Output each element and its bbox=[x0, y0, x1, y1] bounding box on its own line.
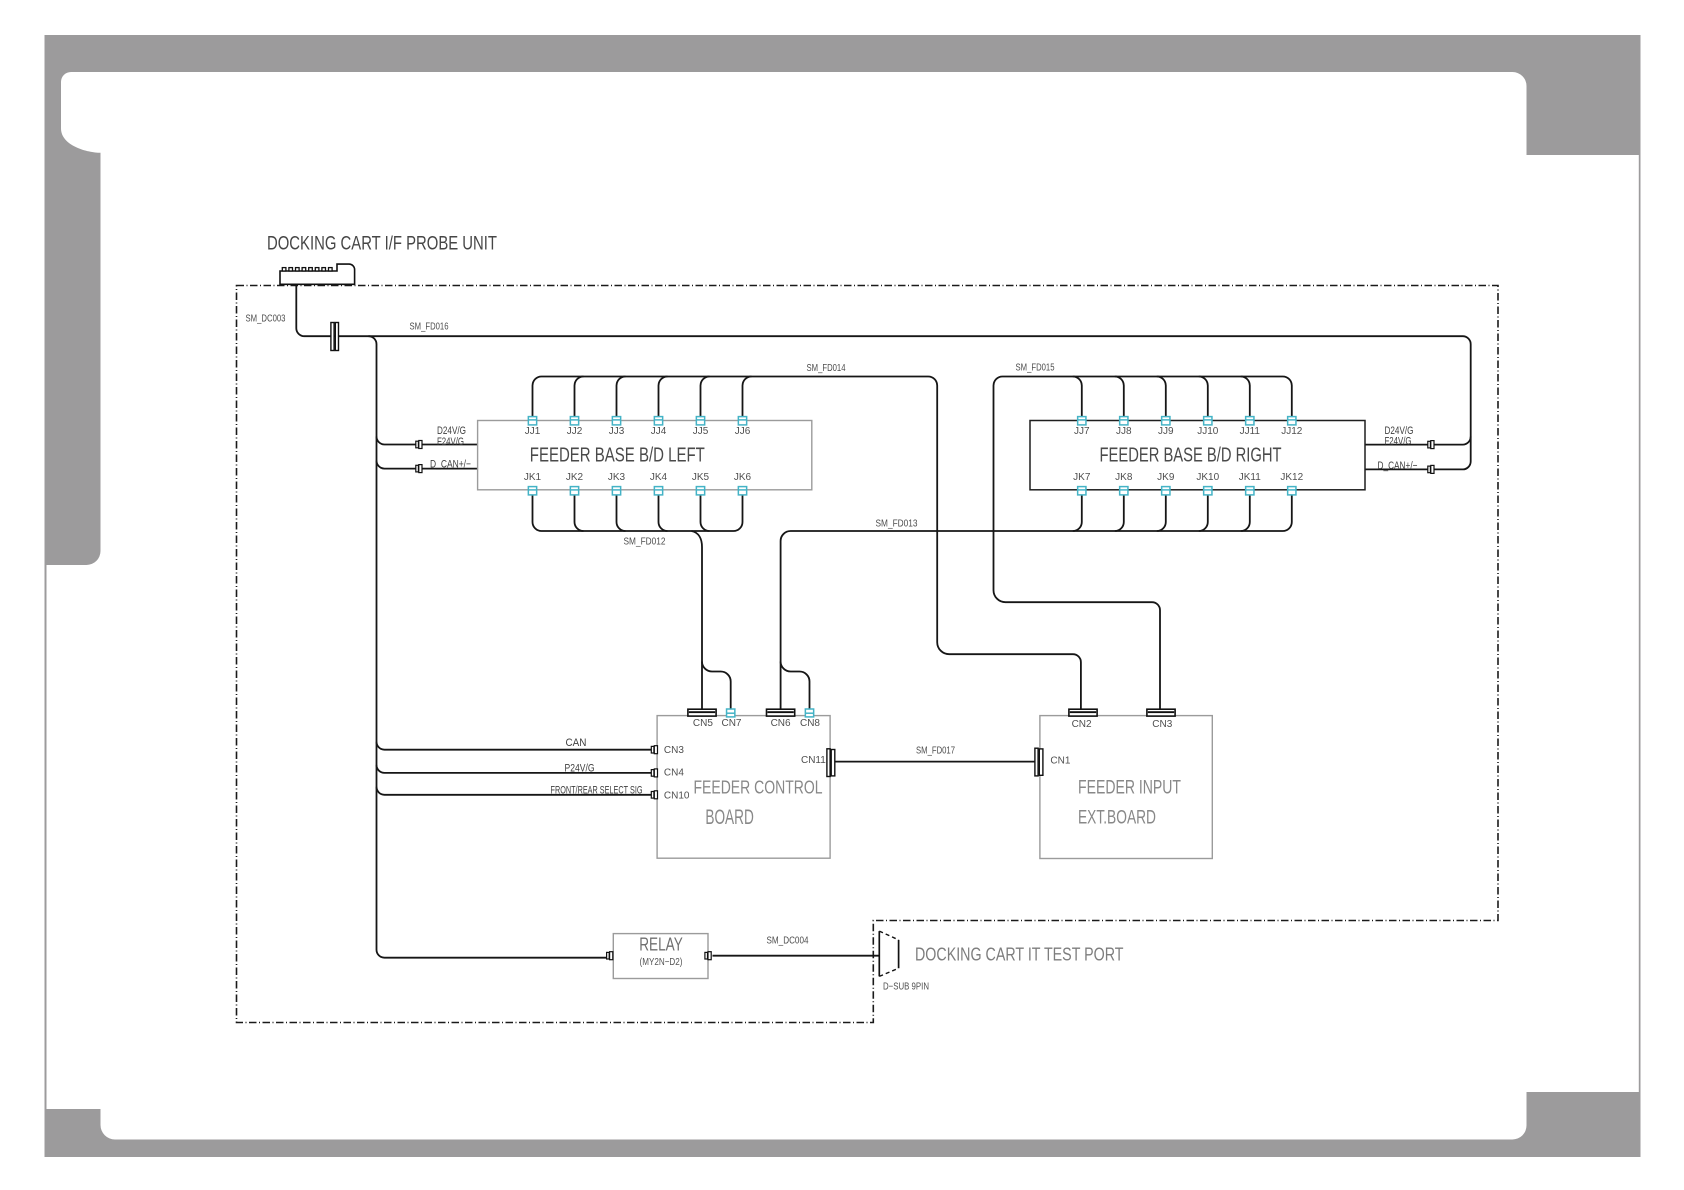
svg-text:JJ3: JJ3 bbox=[609, 426, 625, 437]
wire JJ7 stub bbox=[1073, 377, 1082, 417]
svg-text:F24V/G: F24V/G bbox=[437, 436, 464, 448]
pin JK12 bbox=[1288, 487, 1296, 495]
pin JJ5 bbox=[696, 417, 704, 425]
pin JJ4 bbox=[654, 417, 662, 425]
connector CN7 cyan bbox=[727, 709, 735, 717]
pin JJ1 bbox=[528, 417, 536, 425]
svg-text:JK4: JK4 bbox=[650, 472, 668, 483]
wire CAN bbox=[377, 742, 652, 750]
wire SM_DC003 / SM_FD016 trunk bbox=[296, 284, 1470, 469]
wire left trunk to relay bbox=[369, 336, 607, 958]
wire JK9 stub bbox=[1157, 495, 1166, 531]
wire JK3 stub bbox=[617, 495, 626, 531]
svg-text:CN3: CN3 bbox=[664, 745, 684, 756]
svg-text:SM_DC004: SM_DC004 bbox=[767, 936, 809, 947]
wire JJ10 stub bbox=[1199, 377, 1208, 417]
wire SM_FD013 bus CN6 to JK12 bbox=[781, 495, 1292, 709]
svg-text:JJ6: JJ6 bbox=[735, 426, 751, 437]
wire JJ6 stub bbox=[743, 377, 752, 417]
svg-text:CN8: CN8 bbox=[800, 718, 820, 729]
cyan pins JK1-JK6 bbox=[528, 487, 746, 495]
wire JK4 stub bbox=[659, 495, 668, 531]
svg-text:CN5: CN5 bbox=[693, 718, 713, 729]
svg-text:JK7: JK7 bbox=[1073, 472, 1091, 483]
svg-text:SM_FD015: SM_FD015 bbox=[1016, 363, 1055, 374]
wire D_CAN+/- left bbox=[377, 461, 478, 469]
board FEEDER CONTROL BOARD bbox=[657, 716, 830, 859]
wire JK8 stub bbox=[1115, 495, 1124, 531]
board FEEDER INPUT EXT.BOARD bbox=[1040, 716, 1212, 859]
connector CN5 bars bbox=[688, 709, 716, 716]
plug CN10 bbox=[651, 791, 657, 799]
wire JJ2 stub bbox=[575, 377, 584, 417]
cyan pins JK7-JK12 bbox=[1078, 487, 1296, 495]
wire JK2 stub bbox=[575, 495, 584, 531]
pin JK4 bbox=[654, 487, 662, 495]
plug relay left bbox=[607, 952, 613, 960]
svg-text:P24V/G: P24V/G bbox=[565, 763, 595, 775]
svg-text:JJ1: JJ1 bbox=[525, 426, 541, 437]
connector CN11 bars bbox=[827, 749, 835, 777]
svg-text:JK8: JK8 bbox=[1115, 472, 1133, 483]
svg-text:SM_FD017: SM_FD017 bbox=[916, 746, 955, 757]
plug D_CAN right bbox=[1428, 465, 1434, 473]
svg-text:JJ9: JJ9 bbox=[1158, 426, 1174, 437]
board FEEDER BASE B/D RIGHT bbox=[1030, 421, 1365, 490]
wire CN7 branch bbox=[702, 662, 731, 710]
svg-text:SM_FD013: SM_FD013 bbox=[876, 519, 918, 530]
connector bars on SM_FD016 bbox=[331, 323, 339, 351]
pin JJ7 bbox=[1078, 417, 1086, 425]
wires group bbox=[296, 284, 1470, 957]
svg-text:JJ8: JJ8 bbox=[1116, 426, 1132, 437]
pin JK8 bbox=[1120, 487, 1128, 495]
pin JJ6 bbox=[738, 417, 746, 425]
svg-text:JK9: JK9 bbox=[1157, 472, 1175, 483]
wire F24V/G right branch bbox=[1365, 437, 1471, 445]
svg-text:CN2: CN2 bbox=[1072, 719, 1092, 730]
pin JK5 bbox=[696, 487, 704, 495]
svg-text:SM_FD014: SM_FD014 bbox=[807, 363, 846, 374]
svg-text:BOARD: BOARD bbox=[705, 806, 754, 829]
wire JJ11 stub bbox=[1241, 377, 1250, 417]
svg-text:D−SUB 9PIN: D−SUB 9PIN bbox=[883, 982, 929, 993]
svg-text:CN3: CN3 bbox=[1152, 719, 1172, 730]
svg-text:JK2: JK2 bbox=[566, 472, 584, 483]
pin JJ12 bbox=[1288, 417, 1296, 425]
plug CN4 bbox=[651, 769, 657, 777]
wire JK11 stub bbox=[1241, 495, 1250, 531]
svg-text:FEEDER INPUT: FEEDER INPUT bbox=[1078, 777, 1181, 799]
svg-text:CN10: CN10 bbox=[664, 791, 690, 802]
pin JK1 bbox=[528, 487, 536, 495]
svg-text:CN7: CN7 bbox=[721, 718, 741, 729]
wire JJ5 stub bbox=[701, 377, 710, 417]
pin JJ9 bbox=[1162, 417, 1170, 425]
plug F24V/G left bbox=[416, 441, 422, 449]
pin JK2 bbox=[570, 487, 578, 495]
svg-text:D_CAN+/−: D_CAN+/− bbox=[1378, 460, 1418, 472]
svg-text:JJ7: JJ7 bbox=[1074, 426, 1090, 437]
D-SUB 9PIN connector bbox=[879, 931, 898, 976]
pin JJ11 bbox=[1246, 417, 1254, 425]
svg-text:DOCKING CART I/F PROBE UNIT: DOCKING CART I/F PROBE UNIT bbox=[267, 234, 497, 255]
wire SM_FD014 bus JJ1 to CN2 bbox=[533, 377, 1081, 710]
probe connector teeth bbox=[282, 268, 332, 271]
connector CN2 bars bbox=[1069, 709, 1097, 716]
svg-text:(MY2N−D2): (MY2N−D2) bbox=[640, 957, 683, 968]
svg-text:CN11: CN11 bbox=[801, 755, 826, 766]
wire CN5 drop bbox=[692, 531, 703, 709]
connector CN6 bars bbox=[767, 709, 795, 716]
svg-text:DOCKING CART IT TEST PORT: DOCKING CART IT TEST PORT bbox=[915, 944, 1124, 964]
svg-text:JJ11: JJ11 bbox=[1240, 426, 1261, 437]
svg-text:CN4: CN4 bbox=[664, 768, 684, 779]
wire JK5 stub bbox=[701, 495, 710, 531]
wire FRONT/REAR SELECT SIG bbox=[377, 787, 652, 795]
svg-text:F24V/G: F24V/G bbox=[1385, 435, 1412, 447]
wire SM_DC004 relay to test port bbox=[713, 955, 880, 957]
pin JK10 bbox=[1204, 487, 1212, 495]
svg-text:SM_DC003: SM_DC003 bbox=[246, 314, 286, 325]
svg-text:JJ2: JJ2 bbox=[567, 426, 583, 437]
pin JK3 bbox=[612, 487, 620, 495]
wire F24V/G left bbox=[377, 437, 478, 445]
relay box bbox=[613, 934, 708, 979]
svg-text:JK1: JK1 bbox=[524, 472, 542, 483]
pin JK11 bbox=[1246, 487, 1254, 495]
wire JJ4 stub bbox=[659, 377, 668, 417]
wire P24V/G bbox=[377, 765, 652, 773]
svg-text:SM_FD016: SM_FD016 bbox=[410, 322, 449, 333]
cyan pins JJ1-JJ6 bbox=[528, 417, 746, 425]
svg-text:CAN: CAN bbox=[566, 737, 587, 749]
svg-text:EXT.BOARD: EXT.BOARD bbox=[1078, 807, 1156, 829]
board FEEDER BASE B/D LEFT bbox=[478, 421, 812, 490]
svg-text:SM_FD012: SM_FD012 bbox=[624, 537, 666, 548]
pin JJ10 bbox=[1204, 417, 1212, 425]
svg-text:CN6: CN6 bbox=[771, 718, 791, 729]
connector CN8 cyan bbox=[805, 709, 813, 717]
svg-text:JJ4: JJ4 bbox=[651, 426, 667, 437]
wire CN8 branch bbox=[781, 662, 810, 710]
pin JK7 bbox=[1078, 487, 1086, 495]
wire SM_FD015 bus JJ12 to CN3 bbox=[994, 377, 1292, 710]
pin JK9 bbox=[1162, 487, 1170, 495]
svg-text:D_CAN+/−: D_CAN+/− bbox=[430, 459, 471, 471]
svg-text:JK6: JK6 bbox=[734, 472, 752, 483]
plug relay right bbox=[705, 952, 711, 960]
svg-text:JK10: JK10 bbox=[1196, 472, 1219, 483]
connector CN3 bars input board bbox=[1147, 709, 1175, 716]
wire SM_FD017 bbox=[835, 761, 1035, 763]
wire SM_FD012 bus JK1-JK6 bbox=[533, 495, 743, 531]
svg-text:JJ5: JJ5 bbox=[693, 426, 709, 437]
svg-text:JK3: JK3 bbox=[608, 472, 626, 483]
svg-text:RELAY: RELAY bbox=[639, 934, 683, 955]
svg-text:JK5: JK5 bbox=[692, 472, 710, 483]
svg-text:FEEDER BASE B/D LEFT: FEEDER BASE B/D LEFT bbox=[530, 444, 705, 466]
plug F24V/G right bbox=[1428, 441, 1434, 449]
cyan pins JJ7-JJ12 bbox=[1078, 417, 1296, 425]
plug D_CAN left bbox=[416, 465, 422, 473]
svg-text:FRONT/REAR SELECT SIG: FRONT/REAR SELECT SIG bbox=[551, 785, 643, 797]
svg-text:JK12: JK12 bbox=[1280, 472, 1303, 483]
svg-text:FEEDER BASE B/D RIGHT: FEEDER BASE B/D RIGHT bbox=[1100, 444, 1282, 466]
pin JJ2 bbox=[570, 417, 578, 425]
wire JK7 stub bbox=[1073, 495, 1082, 531]
svg-text:JJ10: JJ10 bbox=[1197, 426, 1219, 437]
dash-dot docking cart boundary bbox=[237, 286, 1499, 1023]
wire JJ8 stub bbox=[1115, 377, 1124, 417]
pin JJ8 bbox=[1120, 417, 1128, 425]
wire JJ9 stub bbox=[1157, 377, 1166, 417]
wire JJ3 stub bbox=[617, 377, 626, 417]
pin JJ3 bbox=[612, 417, 620, 425]
pin JK6 bbox=[738, 487, 746, 495]
plug CN3 bbox=[651, 746, 657, 754]
svg-text:CN1: CN1 bbox=[1050, 756, 1070, 767]
svg-text:JJ12: JJ12 bbox=[1281, 426, 1303, 437]
connector CN1 bars bbox=[1035, 748, 1043, 776]
svg-text:JK11: JK11 bbox=[1239, 472, 1261, 483]
svg-text:FEEDER CONTROL: FEEDER CONTROL bbox=[694, 777, 823, 798]
wire JK10 stub bbox=[1199, 495, 1208, 531]
probe unit connector bbox=[280, 264, 355, 284]
